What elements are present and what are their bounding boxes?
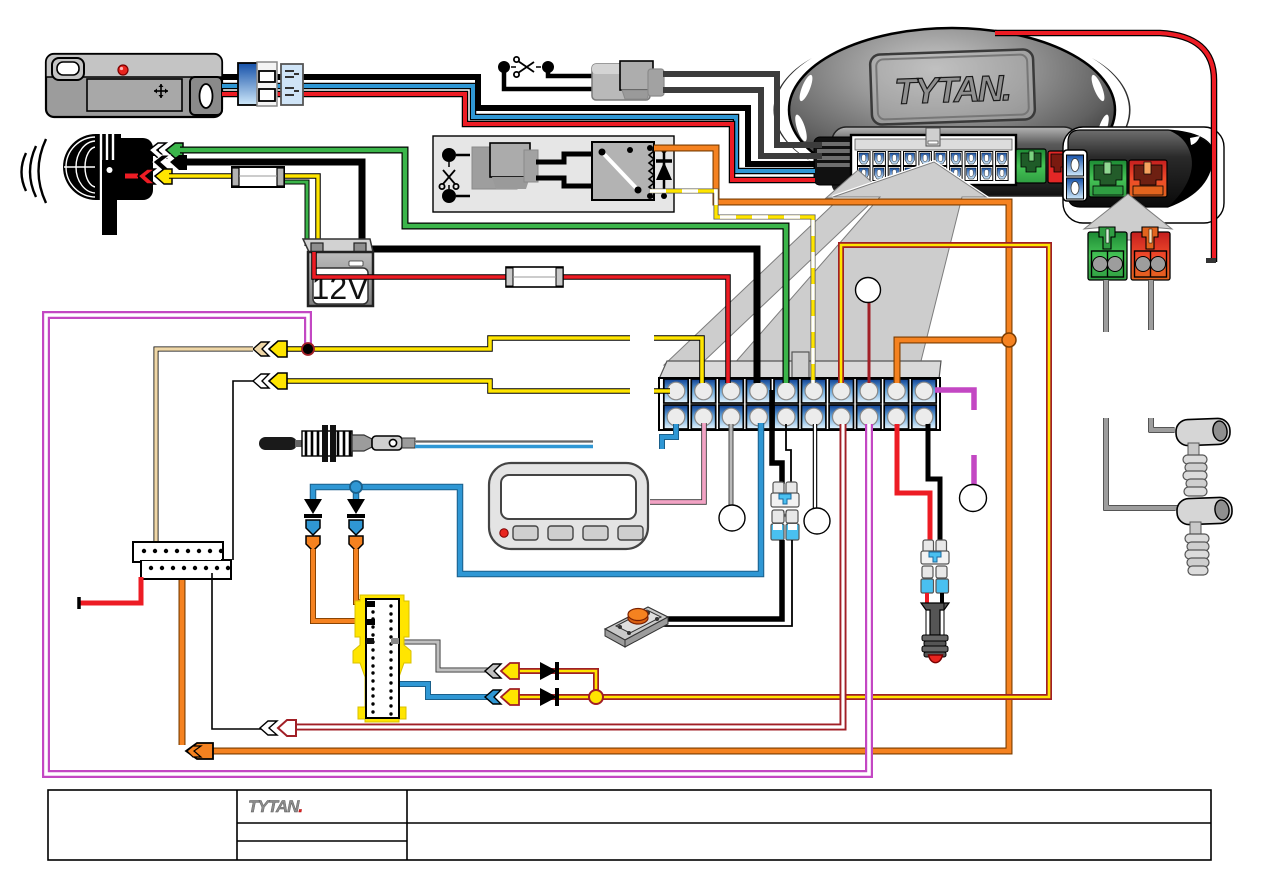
svg-text:TYTAN.: TYTAN. xyxy=(894,67,1011,112)
svg-text:TYTAN.: TYTAN. xyxy=(248,797,302,816)
